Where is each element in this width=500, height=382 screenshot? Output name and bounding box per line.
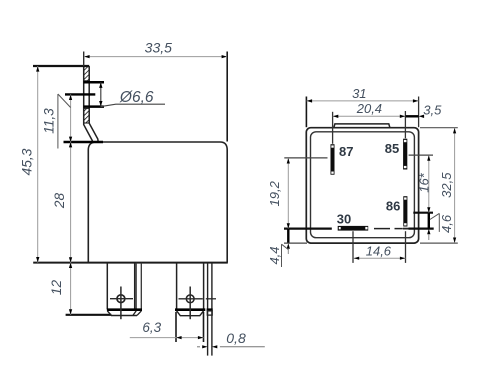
svg-text:3,5: 3,5: [423, 103, 442, 118]
svg-text:28: 28: [52, 193, 67, 210]
svg-text:32,5: 32,5: [439, 172, 454, 198]
svg-text:11,3: 11,3: [42, 108, 57, 134]
svg-text:86: 86: [386, 198, 400, 213]
svg-text:0,8: 0,8: [226, 330, 246, 346]
svg-text:12: 12: [49, 280, 64, 296]
svg-text:85: 85: [385, 141, 399, 156]
svg-text:14,6: 14,6: [366, 244, 392, 259]
svg-text:4,6: 4,6: [439, 214, 454, 233]
svg-text:30: 30: [337, 211, 351, 226]
svg-text:Ø6,6: Ø6,6: [119, 89, 154, 106]
svg-text:45,3: 45,3: [20, 148, 35, 175]
svg-text:31: 31: [352, 86, 366, 101]
svg-text:19,2: 19,2: [267, 180, 282, 206]
svg-text:87: 87: [339, 144, 353, 159]
svg-text:33,5: 33,5: [145, 40, 172, 56]
svg-text:4,4: 4,4: [267, 246, 282, 264]
svg-text:20,4: 20,4: [356, 101, 382, 116]
svg-text:16*: 16*: [416, 172, 431, 192]
svg-text:6,3: 6,3: [142, 320, 161, 335]
